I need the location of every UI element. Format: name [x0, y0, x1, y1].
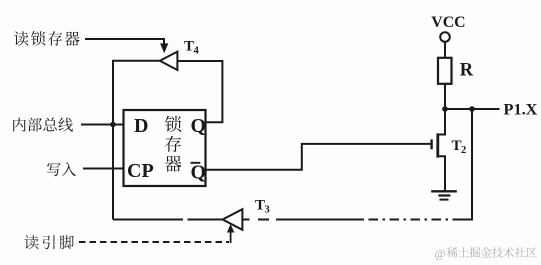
wire Q to T4 input: [177, 61, 222, 122]
svg-text:R: R: [460, 61, 474, 81]
resistor R: [438, 58, 452, 84]
svg-text:VCC: VCC: [431, 14, 465, 31]
wire internal bus to D pin: [81, 124, 124, 126]
wire resistor to drain node: [444, 84, 446, 109]
label 写入 (write): [47, 162, 76, 176]
svg-text:CP: CP: [127, 160, 154, 182]
junction dot internal bus / D: [110, 122, 116, 128]
label 读引脚 (read pin): [24, 235, 73, 249]
svg-text:4: 4: [194, 46, 200, 57]
tri-state buffer T4: [160, 52, 178, 70]
wire write to CP pin: [83, 168, 124, 170]
wire VCC to resistor: [444, 42, 446, 58]
wire T4 output to internal bus (left vertical): [113, 61, 160, 220]
arrowhead into T4 enable: [160, 43, 168, 53]
wire drain from node: [438, 109, 445, 135]
wire P1.X node down to T3 input corner: [457, 109, 473, 220]
svg-text:@: @: [435, 246, 446, 260]
svg-text:T: T: [184, 39, 194, 55]
wire source to ground: [438, 156, 445, 191]
svg-text:2: 2: [461, 145, 466, 156]
svg-text:T: T: [452, 138, 462, 154]
arrow 读引脚 into T3: [230, 231, 232, 244]
label 锁存器 (latch) vertical: [165, 116, 182, 172]
wire node to P1.X: [445, 108, 500, 110]
latch U1 box: [124, 110, 206, 186]
wire T3 output to internal bus: [113, 219, 223, 221]
svg-text:Q: Q: [191, 162, 207, 184]
tri-state buffer T3: [223, 209, 243, 230]
svg-text:P1.X: P1.X: [504, 100, 538, 119]
junction dot P1.X branch: [469, 106, 475, 112]
wire T3 input dash-dot section: [243, 219, 457, 221]
svg-text:D: D: [134, 115, 148, 137]
svg-text:Q: Q: [191, 115, 207, 137]
ground: [431, 191, 457, 199]
transistor T2 channel bar: [436, 133, 439, 157]
watermark @稀土掘金技术社区: [435, 246, 537, 260]
wire read-latch control: [85, 39, 164, 45]
wire Qbar to T2 gate: [206, 144, 431, 170]
label 读锁存器 (read latch): [14, 31, 80, 46]
label 内部总线 (internal bus): [13, 118, 73, 132]
VCC terminal circle: [440, 32, 450, 42]
svg-text:3: 3: [265, 205, 270, 216]
transistor T2 (FET) gate bar: [430, 139, 432, 149]
svg-text:T: T: [255, 198, 265, 214]
junction dot drain node: [442, 106, 448, 112]
dashed wire 读引脚: [79, 241, 229, 243]
